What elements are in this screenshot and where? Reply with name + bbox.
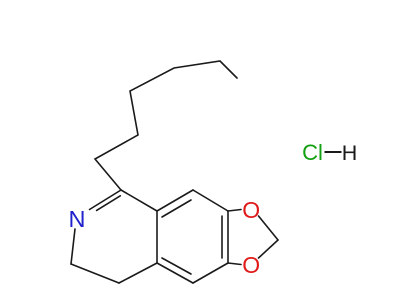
svg-text:O: O [242,197,260,223]
svg-text:Cl: Cl [302,140,323,165]
svg-text:O: O [242,252,260,278]
svg-text:H: H [342,141,358,165]
svg-text:N: N [69,206,86,232]
